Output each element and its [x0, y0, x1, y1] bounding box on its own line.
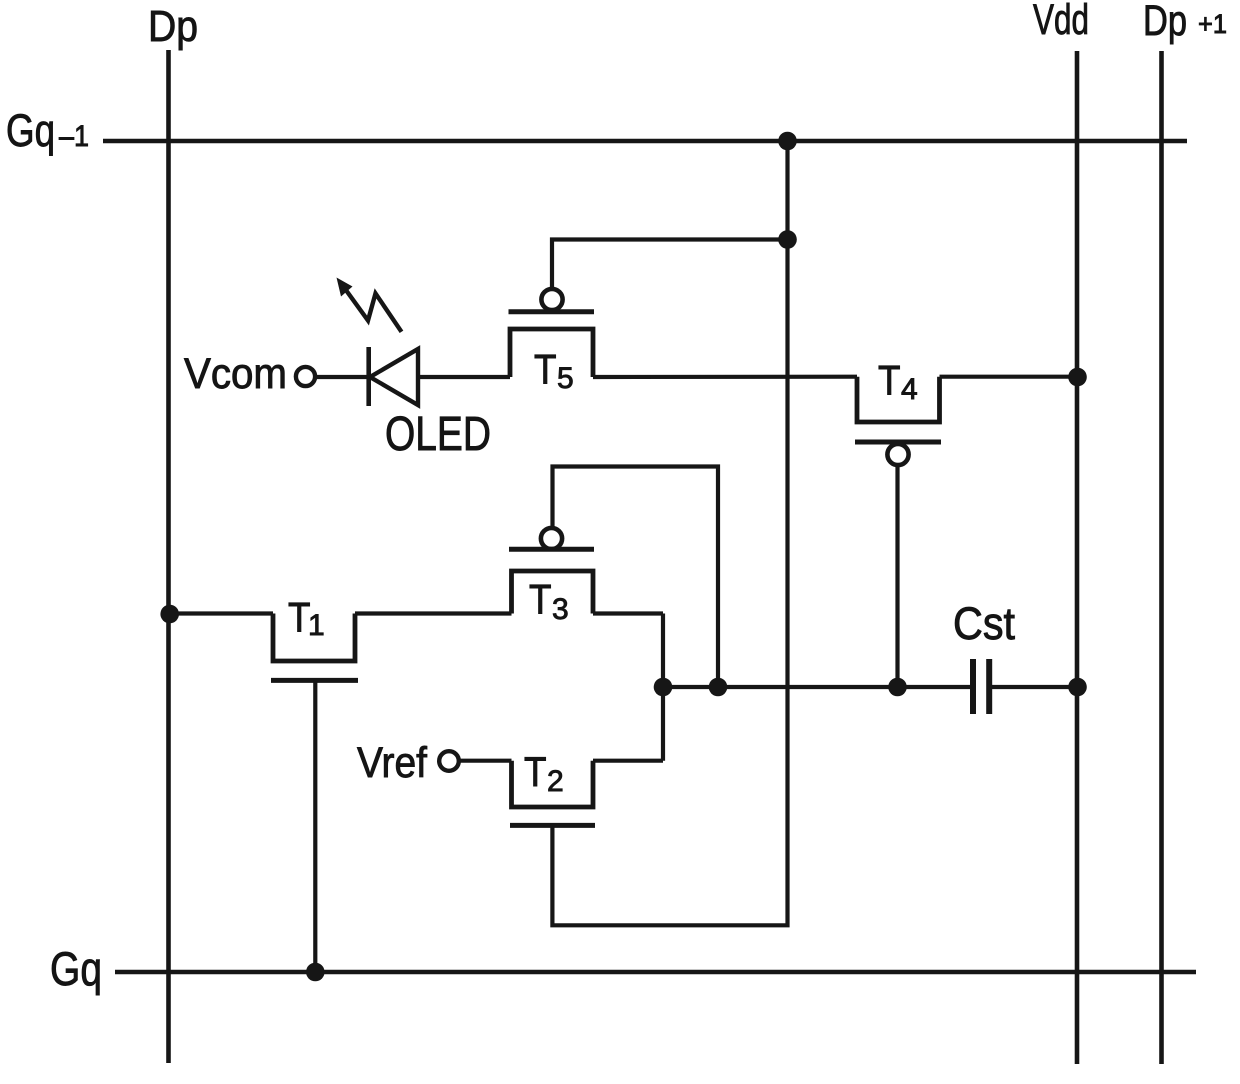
arrow light-emission symbol shaft: [343, 286, 402, 332]
svg-text:Dp: Dp: [1143, 0, 1187, 45]
net Vdd power line (vertical bus): [1075, 51, 1080, 1064]
transistor T4 gate bar: [855, 440, 941, 445]
net Dp data line (vertical bus): [166, 50, 171, 1063]
svg-text:Cst: Cst: [953, 598, 1015, 649]
svg-text:OLED: OLED: [385, 408, 491, 461]
wire OLED anode to T5 source: [418, 375, 510, 379]
transistor T1 gate bar: [271, 678, 358, 683]
svg-text:Vdd: Vdd: [1033, 0, 1089, 44]
svg-text:Vcom: Vcom: [184, 350, 287, 398]
junction dot T3/T2 drains / storage node: [654, 678, 673, 697]
transistor T5 channel (top-hat): [510, 329, 593, 377]
diode OLED cathode bar: [366, 347, 371, 406]
arrowhead of light-emission symbol: [337, 278, 353, 297]
svg-text:5: 5: [557, 362, 574, 395]
transistor T2 gate bar: [510, 823, 595, 828]
net Dp+1 data line (vertical bus): [1159, 51, 1164, 1064]
wire storage-node vertical joining T3 and T2 drains: [661, 614, 665, 761]
wire Vref to T2 source: [459, 759, 512, 763]
transistor T1 channel (inverted hat): [273, 614, 355, 662]
svg-text:Gq: Gq: [6, 105, 55, 156]
wire T4 gate lead down to storage node: [895, 465, 899, 687]
terminal Vref (open circle): [439, 751, 459, 771]
transistor T2 channel (inverted hat): [512, 761, 594, 807]
wire T3 gate diode-connection loop: [553, 467, 719, 688]
svg-text:–1: –1: [59, 120, 89, 153]
transistor T3 gate bar: [509, 547, 594, 552]
capacitor Cst left plate: [970, 659, 976, 714]
wire Dp to T1 source: [169, 611, 274, 615]
net Gq-1 previous gate line (horizontal bus): [103, 139, 1187, 144]
wire Gq-1 tap down to T2 gate (x=787.5): [552, 141, 787, 925]
svg-text:Gq: Gq: [50, 942, 102, 995]
wire T4 drain to Vdd: [940, 375, 1078, 379]
transistor T5 gate contact circle: [541, 289, 562, 310]
wire T5 gate lead to tap wire: [552, 240, 788, 289]
svg-text:T: T: [529, 576, 552, 623]
junction dot Dp / T1 source wire: [160, 605, 179, 624]
junction dot Gq-1 / tap wire: [778, 132, 797, 151]
wire Vcom to OLED cathode: [316, 375, 370, 379]
svg-text:3: 3: [552, 593, 569, 626]
transistor T5 gate bar: [509, 309, 595, 314]
svg-text:T: T: [878, 357, 901, 404]
wire T5 drain to T4 source: [593, 375, 857, 379]
transistor T4 channel (inverted hat): [857, 377, 940, 422]
wire storage node line left of Cst: [663, 685, 973, 689]
wire T2 drain to storage node corner: [593, 759, 663, 763]
capacitor Cst right plate: [986, 659, 992, 714]
transistor T4 gate contact circle: [887, 444, 908, 465]
junction dot T4 drain / Vdd: [1068, 368, 1087, 387]
transistor T3 gate contact circle: [541, 528, 562, 549]
junction dot storage node / Vdd: [1068, 678, 1087, 697]
terminal Vcom (open circle): [296, 367, 315, 386]
junction dot T3 gate loop / storage node: [709, 678, 728, 697]
svg-text:+1: +1: [1198, 9, 1227, 39]
net Gq gate line (horizontal bus): [115, 970, 1196, 975]
wire T3 drain to storage node corner: [593, 611, 663, 615]
svg-text:4: 4: [901, 373, 918, 406]
svg-text:Dp: Dp: [148, 2, 198, 51]
svg-text:T: T: [524, 748, 547, 795]
svg-text:Vref: Vref: [357, 739, 428, 787]
wire T1 gate lead down to Gq: [313, 680, 317, 972]
diode OLED triangle: [370, 349, 418, 405]
junction dot T1 gate / Gq: [306, 963, 325, 982]
wire storage node line from Cst to Vdd: [989, 685, 1077, 689]
svg-text:1: 1: [308, 609, 325, 642]
transistor T3 channel (top-hat): [512, 571, 594, 614]
svg-text:T: T: [534, 346, 557, 393]
junction dot tap wire / T5 gate wire: [778, 230, 797, 249]
wire T1 drain to T3 source: [355, 611, 512, 615]
svg-text:2: 2: [547, 765, 564, 798]
junction dot T4 gate / storage node: [888, 678, 907, 697]
